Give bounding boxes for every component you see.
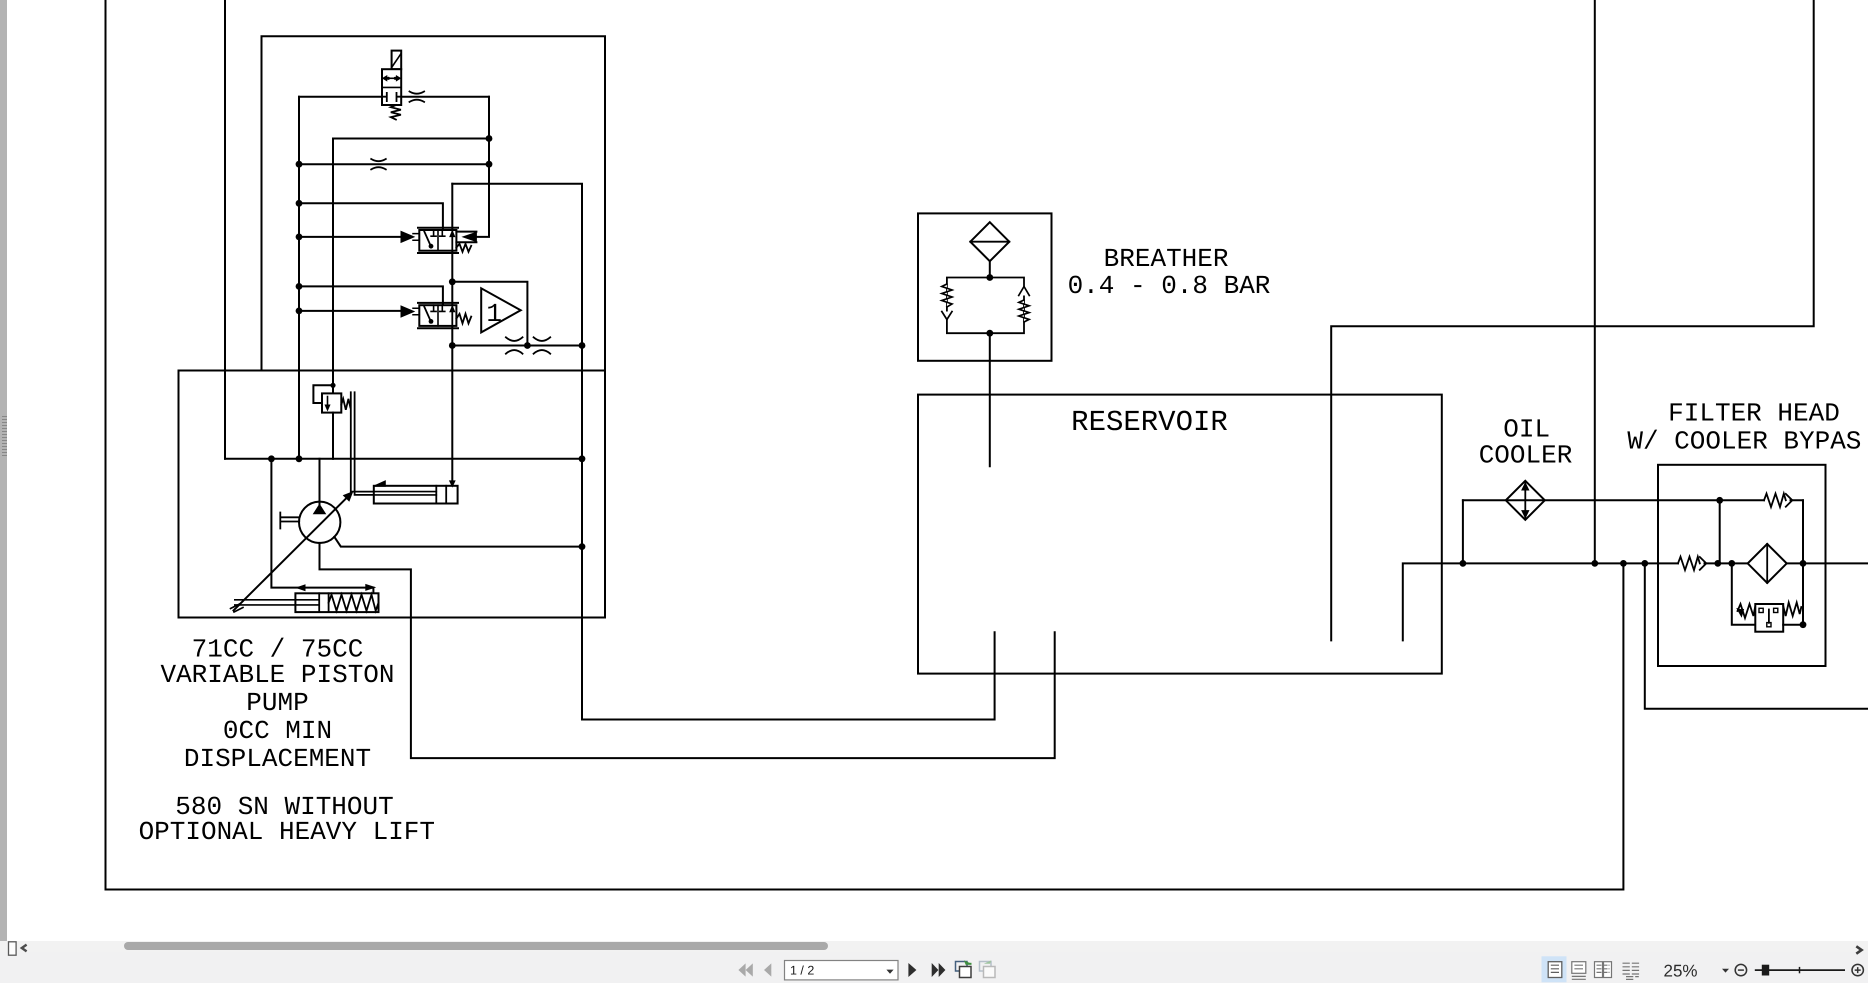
node j7 bbox=[296, 308, 303, 315]
sidebar page button (bottom-left) bbox=[9, 942, 17, 955]
wire: servo pilot double line (wall + pipe to servo piston) bbox=[351, 392, 437, 495]
icon: continuous scrolling bbox=[1572, 962, 1586, 980]
node j9 bbox=[449, 342, 456, 349]
nav: next page bbox=[908, 963, 916, 977]
valve SV1: solenoid unloader valve (top) bbox=[382, 51, 401, 120]
wire: cooler line + bypass check drop (gaps for symbols) bbox=[1463, 499, 1803, 501]
wire: pilot to valve V2 left bbox=[299, 310, 401, 312]
svg-text:COOLER: COOLER bbox=[1479, 441, 1573, 471]
zoom slider bbox=[1755, 965, 1845, 975]
wire: oil cooler branch riser bbox=[1462, 500, 1464, 563]
icon: next view (disabled) bbox=[980, 960, 996, 977]
node j5 bbox=[296, 234, 303, 241]
icon: two page scrolling bbox=[1623, 963, 1640, 979]
node: reservoir box bbox=[918, 395, 1442, 674]
icon: previous view bbox=[956, 960, 972, 977]
wire: pump outlet riser bbox=[319, 459, 321, 506]
node j16 bbox=[986, 274, 993, 281]
svg-text:1 / 2: 1 / 2 bbox=[790, 963, 814, 977]
svg-text:BREATHER: BREATHER bbox=[1104, 244, 1229, 274]
node j10 bbox=[524, 342, 531, 349]
node j19 bbox=[1591, 560, 1598, 567]
node: pump enclosure box bbox=[179, 371, 606, 618]
node j23 bbox=[1728, 560, 1735, 567]
valve PRV1: pressure reducing valve in pump box bbox=[313, 385, 350, 459]
node j11 bbox=[579, 342, 586, 349]
node j25 bbox=[1716, 497, 1723, 504]
node j2 bbox=[296, 161, 303, 168]
wire: outer vertical line x=225 down to pump manifold bbox=[224, 0, 226, 459]
node j26 bbox=[1800, 621, 1807, 628]
wire: left page border + bottom border + riser to filter line bbox=[106, 0, 1624, 890]
wire: pilot to valve V1 left bbox=[299, 236, 401, 238]
svg-text:FILTER HEAD: FILTER HEAD bbox=[1668, 399, 1840, 429]
node j3 bbox=[486, 161, 493, 168]
wire: pilot rail x=299 bbox=[298, 97, 300, 459]
nav: page number combo box bbox=[785, 961, 899, 980]
actuator CYL1: servo piston cylinder bbox=[374, 481, 458, 504]
orifice O3 O4 (double, under amplifier) bbox=[506, 337, 523, 353]
node j14 bbox=[579, 455, 586, 462]
svg-text:1: 1 bbox=[486, 299, 502, 329]
filter F1: breather element + check valves bbox=[942, 222, 1030, 333]
scrollbar right arrow bbox=[1856, 946, 1861, 953]
svg-text:W/ COOLER BYPAS: W/ COOLER BYPAS bbox=[1627, 426, 1861, 456]
node: breather box bbox=[918, 213, 1052, 360]
node j22 bbox=[1714, 560, 1721, 567]
icon: single page layout (active) bbox=[1542, 956, 1567, 982]
op-amp U1: proportional amplifier triangle bbox=[481, 288, 521, 332]
wire: pump case drain to x=582 bbox=[334, 537, 582, 547]
node j18 bbox=[1460, 560, 1467, 567]
valve RV2: flow compensator valve (lower 3-way) bbox=[401, 303, 471, 328]
node j15 bbox=[330, 383, 335, 388]
svg-text:0.4 - 0.8 BAR: 0.4 - 0.8 BAR bbox=[1068, 271, 1271, 301]
node j17 bbox=[986, 330, 993, 337]
wire: breather pipe into reservoir bbox=[989, 333, 991, 466]
svg-text:PUMP: PUMP bbox=[246, 688, 308, 718]
wire: vertical from top to main cooler line x=1594.8 bbox=[1594, 0, 1596, 563]
node j1 bbox=[486, 135, 493, 142]
node j6 bbox=[296, 283, 303, 290]
zoom out button bbox=[1735, 964, 1746, 975]
wire: right pilot riser x=489 bbox=[476, 97, 489, 237]
actuator CYL2: bias spring cylinder bbox=[235, 585, 379, 613]
wire: pilot to valve V2 top bbox=[299, 286, 443, 305]
wire: riser from bypass junction to main line bbox=[1719, 500, 1721, 563]
nav: last page bbox=[932, 963, 946, 977]
orifice O1 (next to solenoid valve) bbox=[410, 92, 425, 102]
svg-text:0CC MIN: 0CC MIN bbox=[223, 716, 332, 746]
svg-text:OPTIONAL HEAVY LIFT: OPTIONAL HEAVY LIFT bbox=[139, 817, 435, 847]
wire: double-orifice line y=345.5 bbox=[452, 345, 582, 347]
check CV2: cooler bypass spring check bbox=[1764, 494, 1786, 507]
svg-text:RESERVOIR: RESERVOIR bbox=[1071, 406, 1228, 439]
wire: return pipe reservoir->pump + inner pump piping bbox=[320, 543, 1055, 758]
node j21 bbox=[1641, 560, 1648, 567]
wire: suction pipe reservoir->pump case + riser to orifice line + top link bbox=[452, 184, 994, 720]
cooler HX1: oil cooler diamond bbox=[1506, 481, 1545, 520]
node j8 bbox=[449, 278, 456, 285]
svg-text:DISPLACEMENT: DISPLACEMENT bbox=[184, 744, 371, 774]
wire: top-right loop into reservoir bbox=[1331, 0, 1814, 640]
nav: first page (disabled) bbox=[738, 963, 752, 976]
valve RV1: pressure compensator valve (upper 3-way) bbox=[401, 228, 476, 253]
wire: orifice line y=164.2 bbox=[299, 163, 489, 165]
svg-text:25%: 25% bbox=[1664, 961, 1698, 980]
icon: two page layout bbox=[1595, 962, 1612, 978]
node j24 bbox=[1800, 560, 1807, 567]
orifice O2 (on line y=164) bbox=[371, 159, 386, 169]
valve TV1: thermal bypass valve bbox=[1732, 563, 1803, 631]
wire: through line x=452.3 valves to servo bbox=[451, 184, 453, 484]
wire: amplifier frame bbox=[452, 282, 527, 346]
wire: servo feed down-leg and spring-cylinder top line bbox=[271, 459, 373, 594]
filter F2: main filter diamond bbox=[1748, 544, 1787, 583]
wire: main line from reservoir to page edge (gap for check spring) bbox=[1403, 563, 1868, 640]
wire: line y=138.5 with drop at x=333 bbox=[333, 139, 489, 394]
node: filter head box bbox=[1658, 465, 1826, 666]
zoom dropdown caret bbox=[1722, 969, 1729, 973]
wire: solenoid valve supply line y=96.7 bbox=[299, 96, 489, 98]
node: control box (pump regulator enclosure) bbox=[262, 36, 606, 617]
zoom in button bbox=[1852, 964, 1863, 975]
node j20 bbox=[1620, 560, 1627, 567]
wire: line down then right to page edge bbox=[1645, 563, 1868, 708]
wire: pilot to valve V1 top bbox=[299, 203, 443, 230]
scrollbar left arrow bbox=[22, 945, 27, 952]
node j13 bbox=[296, 455, 303, 462]
wire: pump manifold line y=458.8 bbox=[225, 458, 582, 460]
nav: prev page (disabled) bbox=[764, 963, 771, 976]
node j14b bbox=[579, 543, 586, 550]
pump P1: variable displacement piston pump circle bbox=[280, 502, 340, 543]
node j12 bbox=[268, 455, 275, 462]
node j4 bbox=[296, 200, 303, 207]
svg-text:VARIABLE PISTON: VARIABLE PISTON bbox=[160, 660, 394, 690]
wire: variable displacement diagonal arrow through pump bbox=[231, 492, 353, 612]
check CV1: spring check on main line bbox=[1678, 557, 1700, 570]
